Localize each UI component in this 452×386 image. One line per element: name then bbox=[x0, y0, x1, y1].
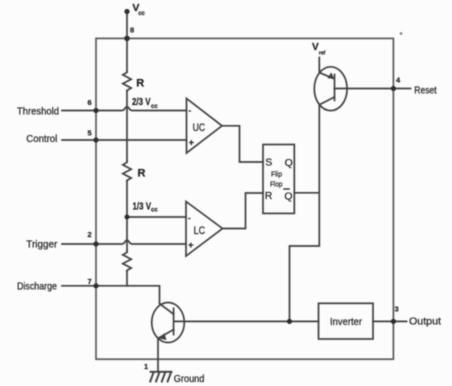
svg-text:R: R bbox=[136, 78, 144, 90]
op-amp LC bbox=[186, 202, 223, 257]
wire Q1 collector down and over to output line bbox=[290, 97, 335, 321]
wire divider chain upper bbox=[126, 38, 128, 71]
inverter box U2 bbox=[319, 303, 374, 339]
svg-text:7: 7 bbox=[88, 277, 92, 286]
wire chain tap to R3 bbox=[126, 217, 128, 251]
node 1/3 Vcc tap dot bbox=[125, 215, 130, 220]
svg-text:8: 8 bbox=[130, 25, 134, 34]
wire Threshold line with hop bbox=[62, 107, 187, 111]
wire Q2 emitter to ground bbox=[157, 339, 159, 372]
node pin8 junction dot bbox=[124, 36, 130, 42]
wire Vcc stub bbox=[126, 12, 128, 39]
svg-text:3: 3 bbox=[395, 305, 399, 314]
transistor Q2 base bar bbox=[173, 308, 175, 334]
svg-text:1/3 V: 1/3 V bbox=[133, 201, 152, 212]
node pin2 junction dot bbox=[93, 241, 98, 246]
label Vcc bbox=[132, 2, 145, 17]
wire chain R1 to R2 bbox=[126, 91, 128, 161]
transistor Q2 collector diagonal bbox=[160, 304, 174, 315]
node pin3 junction dot bbox=[391, 319, 396, 324]
svg-text:Output: Output bbox=[409, 317, 441, 328]
label 1/3 Vcc bbox=[133, 201, 159, 213]
svg-text:S: S bbox=[265, 157, 272, 169]
svg-text:-: - bbox=[188, 214, 191, 223]
transistor Q2 discharge (circle) bbox=[152, 303, 185, 343]
svg-text:+: + bbox=[189, 138, 194, 148]
label Vref bbox=[312, 42, 326, 57]
wire Q1 base to Reset pin bbox=[335, 88, 411, 90]
svg-text:Discharge: Discharge bbox=[17, 282, 57, 293]
node pin5 junction dot bbox=[93, 137, 98, 142]
transistor Q2 emitter diagonal bbox=[159, 330, 174, 338]
wire chain R2 to tap bbox=[126, 181, 128, 217]
label 2/3 Vcc bbox=[132, 97, 158, 110]
svg-text:1: 1 bbox=[144, 362, 148, 371]
resistor R3 bbox=[123, 251, 131, 271]
transistor Q1 base bar bbox=[334, 75, 336, 101]
transistor Q1 reset (circle) bbox=[314, 67, 347, 111]
resistor R2 bbox=[123, 161, 131, 181]
svg-text:cc: cc bbox=[151, 104, 158, 110]
wire Vref lead / Q1 emitter bbox=[319, 58, 333, 79]
wire Control line bbox=[62, 139, 187, 141]
node pin6 junction dot bbox=[93, 108, 98, 113]
Q2 emitter arrowhead bbox=[158, 333, 166, 340]
node pin7 junction dot bbox=[93, 283, 98, 288]
wire discharge transistor base to inverter bbox=[174, 320, 319, 322]
svg-text:Flop: Flop bbox=[270, 181, 283, 188]
svg-text:LC: LC bbox=[194, 225, 206, 237]
svg-text:2/3 V: 2/3 V bbox=[132, 97, 151, 108]
wire Qbar output bbox=[294, 192, 319, 194]
svg-text:5: 5 bbox=[88, 129, 92, 138]
svg-text:cc: cc bbox=[138, 11, 145, 17]
Q1 emitter arrowhead bbox=[327, 72, 334, 78]
wire chain R3 to discharge line bbox=[126, 271, 128, 286]
wire 1/3 Vcc tap to LC bbox=[127, 216, 186, 218]
svg-text:Trigger: Trigger bbox=[26, 240, 58, 251]
flip-flop pin Qbar bbox=[283, 189, 292, 202]
resistor R1 bbox=[123, 71, 131, 92]
svg-text:Reset: Reset bbox=[414, 86, 436, 97]
wire LC output to R bbox=[223, 193, 264, 229]
svg-text:Control: Control bbox=[26, 134, 57, 145]
ground symbol bbox=[150, 372, 171, 382]
node pin4 junction dot bbox=[391, 86, 396, 91]
svg-text:UC: UC bbox=[193, 122, 206, 134]
svg-text:ref: ref bbox=[319, 51, 326, 57]
wire Trigger line with hop bbox=[62, 240, 186, 244]
svg-text:-: - bbox=[189, 106, 192, 115]
IC outline box bbox=[96, 38, 393, 359]
wire UC output to S bbox=[222, 126, 263, 162]
svg-text:R: R bbox=[138, 168, 146, 180]
node Vcc dot bbox=[124, 9, 129, 14]
node output junction dot bbox=[287, 319, 292, 324]
svg-text:Q: Q bbox=[284, 190, 292, 202]
svg-text:R: R bbox=[265, 190, 273, 202]
svg-text:+: + bbox=[188, 240, 193, 250]
svg-text:Flip: Flip bbox=[271, 171, 282, 178]
svg-text:Q: Q bbox=[285, 157, 293, 169]
svg-text:cc: cc bbox=[151, 207, 158, 213]
wire inverter output bbox=[373, 320, 407, 322]
wire Discharge line bbox=[62, 286, 160, 303]
svg-text:2: 2 bbox=[88, 230, 92, 239]
op-amp UC bbox=[187, 99, 223, 154]
svg-text:Ground: Ground bbox=[174, 374, 205, 385]
svg-text:Inverter: Inverter bbox=[330, 317, 363, 328]
flip-flop box U1 bbox=[263, 145, 294, 214]
svg-text:Threshold: Threshold bbox=[17, 107, 59, 118]
stray ink dot bbox=[400, 32, 403, 35]
svg-text:6: 6 bbox=[88, 98, 92, 107]
